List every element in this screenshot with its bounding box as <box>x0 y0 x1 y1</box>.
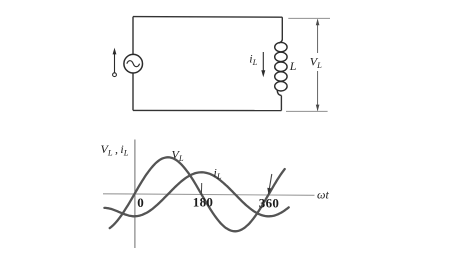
graph x-axis <box>103 194 315 196</box>
svg-text:VL , iL: VL , iL <box>101 142 129 158</box>
V_L dimension arrowhead down <box>316 105 320 112</box>
svg-text:iL: iL <box>214 166 222 182</box>
graph y-axis <box>134 140 136 249</box>
svg-text:VL: VL <box>310 55 322 71</box>
svg-text:VL: VL <box>172 148 184 164</box>
tick at 180 <box>200 183 202 195</box>
source reference arrow <box>113 48 117 77</box>
svg-text:180: 180 <box>193 194 213 209</box>
V_L dimension arrow line lower <box>317 71 319 111</box>
V_L waveform curve <box>110 157 285 231</box>
inductor L coil <box>275 39 287 96</box>
svg-text:L: L <box>289 59 297 73</box>
ac source V <box>124 54 143 73</box>
V_L dimension arrow line upper <box>317 20 319 54</box>
wire right top (to inductor) <box>281 17 283 39</box>
svg-text:360: 360 <box>259 195 279 210</box>
svg-text:iL: iL <box>249 52 257 68</box>
V_L dimension bottom reference line <box>286 110 328 112</box>
arrow at 360 <box>267 174 272 195</box>
wire left <box>132 17 134 111</box>
svg-text:ωt: ωt <box>317 188 329 202</box>
wire bottom <box>133 109 281 111</box>
wire top <box>133 16 282 19</box>
wire right bottom (from inductor) <box>280 96 282 111</box>
V_L dimension arrowhead up <box>316 19 320 26</box>
current arrow i_L <box>261 52 265 77</box>
V_L dimension top reference line <box>288 17 330 19</box>
svg-text:0: 0 <box>137 195 144 210</box>
i_L waveform curve <box>104 172 288 216</box>
